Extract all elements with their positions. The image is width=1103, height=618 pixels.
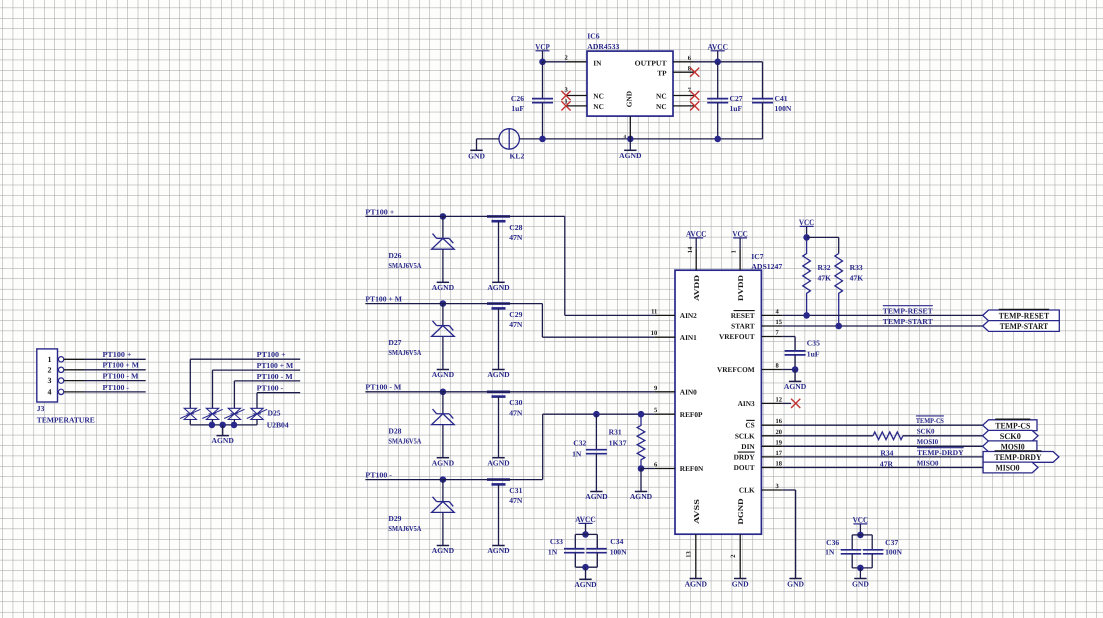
svg-text:18: 18	[776, 461, 783, 468]
svg-text:13: 13	[686, 551, 693, 558]
wire DRDY net	[782, 456, 983, 458]
svg-text:DOUT: DOUT	[734, 463, 755, 472]
svg-text:VCC: VCC	[799, 218, 815, 227]
svg-text:AGND: AGND	[432, 283, 455, 292]
ground AGND below C33/C34	[585, 567, 587, 579]
svg-text:1uF: 1uF	[730, 104, 743, 113]
svg-text:AGND: AGND	[432, 370, 455, 379]
svg-text:10: 10	[651, 330, 658, 337]
svg-text:IN: IN	[593, 58, 602, 67]
svg-text:20: 20	[776, 429, 783, 436]
ground AGND below IC6	[629, 139, 631, 150]
svg-text:4: 4	[48, 387, 52, 396]
svg-text:AGND: AGND	[630, 492, 653, 501]
IC7 pin 2 DGND stub	[739, 534, 741, 578]
junction AVCC	[714, 59, 721, 66]
svg-text:C28: C28	[509, 223, 522, 232]
svg-text:1N: 1N	[548, 547, 558, 556]
svg-text:1uF: 1uF	[511, 104, 524, 113]
svg-text:AVDD: AVDD	[692, 275, 701, 301]
wire PT100 + to AIN2	[365, 215, 564, 217]
wire J3 pin3 net PT100 - M	[84, 380, 146, 382]
svg-text:IC7: IC7	[751, 252, 763, 261]
no-connect X pin 3	[561, 91, 570, 100]
zener diode D26 SMAJ6V5A	[442, 216, 444, 238]
zener diode D28 SMAJ6V5A	[442, 392, 444, 414]
svg-text:VREFOUT: VREFOUT	[719, 332, 755, 341]
capacitor C34 100N	[586, 533, 598, 535]
capacitor C27 1uF	[717, 62, 719, 99]
no-connect X pin 8	[690, 68, 699, 77]
ADC IC7 ADS1247 body	[675, 270, 761, 534]
svg-text:U2B04: U2B04	[267, 421, 289, 430]
resistor R32 47K	[803, 237, 811, 315]
junction PT100 - M diode	[440, 389, 447, 396]
wire REFN to pin 6	[641, 468, 654, 470]
ground AGND below C30	[492, 457, 504, 459]
svg-text:GND: GND	[732, 580, 749, 589]
svg-text:47N: 47N	[509, 408, 523, 417]
IC6 NC pin 7 stub	[673, 95, 695, 97]
junction REFP C32	[593, 411, 600, 418]
svg-text:AIN3: AIN3	[738, 399, 755, 408]
ground AGND below C28	[492, 281, 504, 283]
IC6 NC pin 3 stub	[566, 95, 587, 97]
wire C36/C37 bottom	[852, 567, 872, 569]
svg-text:C33: C33	[550, 537, 563, 546]
svg-text:R32: R32	[818, 263, 831, 272]
ground AGND below R31	[640, 469, 642, 492]
svg-text:PT100 + M: PT100 + M	[365, 295, 402, 304]
svg-text:PT100 -: PT100 -	[103, 383, 130, 392]
svg-text:PT100 - M: PT100 - M	[103, 372, 139, 381]
wire net PT100 - (TVS group)	[257, 392, 300, 394]
svg-text:47N: 47N	[509, 233, 523, 242]
svg-text:D26: D26	[388, 251, 401, 260]
ground GND below C36/C37	[859, 568, 861, 579]
junction PT100 + M diode	[440, 300, 447, 307]
svg-text:PT100 + M: PT100 + M	[103, 361, 140, 370]
svg-text:AVCC: AVCC	[575, 515, 596, 524]
svg-text:OUTPUT: OUTPUT	[635, 58, 667, 67]
svg-text:AGND: AGND	[487, 546, 510, 555]
global label flag TEMP-RESET	[983, 310, 1060, 321]
svg-text:MISO0: MISO0	[996, 463, 1020, 473]
capacitor C30 47N	[487, 390, 510, 393]
wire DIN net	[782, 445, 982, 447]
svg-text:AGND: AGND	[487, 283, 510, 292]
wire PT100 - M to AIN0	[365, 391, 654, 393]
svg-text:SMAJ6V5A: SMAJ6V5A	[388, 261, 421, 270]
svg-text:TEMPERATURE: TEMPERATURE	[37, 416, 95, 425]
svg-text:SMAJ6V5A: SMAJ6V5A	[388, 524, 421, 533]
IC6 NC pin 5 stub	[673, 105, 695, 107]
svg-text:AGND: AGND	[432, 458, 455, 467]
svg-text:TEMP-RESET: TEMP-RESET	[883, 306, 933, 315]
junction rail C27	[714, 136, 721, 143]
svg-text:AGND: AGND	[487, 370, 510, 379]
svg-text:VREFCOM: VREFCOM	[717, 365, 755, 374]
svg-text:TEMP-START: TEMP-START	[883, 317, 933, 326]
svg-text:PT100 +: PT100 +	[365, 207, 394, 216]
svg-text:15: 15	[776, 319, 783, 326]
IC6 pin 8 stub (TP)	[673, 71, 695, 73]
svg-text:SMAJ6V5A: SMAJ6V5A	[388, 436, 421, 445]
svg-text:TP: TP	[657, 69, 667, 78]
svg-text:CLK: CLK	[739, 486, 755, 495]
connector J3 body	[37, 349, 58, 402]
svg-text:TEMP-CS: TEMP-CS	[916, 417, 944, 425]
svg-text:ADR4533: ADR4533	[587, 42, 619, 51]
junction REFP R31	[638, 411, 645, 418]
svg-text:D29: D29	[388, 514, 401, 523]
svg-text:C26: C26	[511, 94, 524, 103]
svg-text:AVSS: AVSS	[692, 499, 701, 524]
supply connector KL2	[499, 129, 519, 149]
TVS diode D25 element 1	[180, 408, 200, 419]
svg-text:J3: J3	[37, 404, 45, 413]
svg-text:1: 1	[731, 250, 738, 253]
svg-text:DRDY: DRDY	[734, 452, 756, 461]
svg-text:C41: C41	[775, 94, 788, 103]
ground AGND below TVS array	[222, 425, 224, 436]
svg-text:NC: NC	[656, 92, 667, 101]
svg-text:47K: 47K	[850, 274, 864, 283]
svg-text:100N: 100N	[610, 547, 627, 556]
svg-text:NC: NC	[593, 102, 604, 111]
IC7 pin 13 AVSS stub	[695, 534, 697, 578]
svg-text:AIN2: AIN2	[680, 311, 697, 320]
zener diode D29 SMAJ6V5A	[442, 480, 444, 502]
TVS diode D25 element 3	[224, 408, 244, 419]
junction VCC C36	[857, 532, 864, 539]
wire J3 pin2 net PT100 + M	[84, 369, 146, 371]
no-connect X pin 7	[690, 91, 699, 100]
ground GND left	[470, 149, 482, 151]
junction VCC R32	[803, 234, 810, 241]
svg-text:AGND: AGND	[212, 436, 235, 445]
wire J3 pin4 net PT100 -	[84, 391, 146, 393]
svg-text:SCK0: SCK0	[917, 428, 935, 436]
ground AGND below D26	[437, 281, 449, 283]
TVS diode D25 element 2	[202, 408, 222, 419]
svg-text:D25: D25	[268, 408, 281, 417]
svg-text:11: 11	[651, 308, 657, 315]
svg-text:TEMP-DRDY: TEMP-DRDY	[995, 452, 1043, 462]
ground AGND below D27	[437, 369, 449, 371]
svg-text:D27: D27	[388, 338, 401, 347]
svg-text:PT100 -: PT100 -	[365, 471, 392, 480]
svg-text:TEMP-START: TEMP-START	[1000, 321, 1049, 331]
TVS diode D25 element 4	[247, 408, 267, 419]
wire net PT100 + (TVS group)	[190, 358, 300, 360]
svg-text:1: 1	[48, 355, 52, 364]
svg-text:AGND: AGND	[487, 458, 510, 467]
svg-text:C27: C27	[730, 94, 743, 103]
svg-text:VCC: VCC	[853, 515, 869, 524]
wire DOUT net	[782, 467, 983, 469]
junction GND C36	[857, 565, 864, 572]
svg-text:SCK0: SCK0	[1000, 431, 1021, 441]
no-connect X AIN3	[791, 399, 800, 408]
svg-text:AGND: AGND	[585, 492, 608, 501]
junction REFN R31	[638, 465, 645, 472]
wire J3 pin1 net PT100 +	[84, 358, 146, 360]
svg-text:R33: R33	[850, 263, 863, 272]
wire net PT100 + M (TVS group)	[213, 369, 301, 371]
svg-text:AIN0: AIN0	[680, 387, 697, 396]
wire PT100 + M to AIN1	[365, 303, 542, 305]
svg-text:AVCC: AVCC	[686, 229, 707, 238]
capacitor C31 47N	[487, 478, 510, 481]
wire net PT100 - M (TVS group)	[234, 380, 300, 382]
ground AGND below C31	[492, 545, 504, 547]
svg-text:SMAJ6V5A: SMAJ6V5A	[388, 348, 421, 357]
wire VREFOUT to C35	[782, 336, 795, 338]
wire START net	[782, 325, 983, 327]
svg-text:2: 2	[48, 365, 52, 374]
svg-text:DIN: DIN	[741, 442, 755, 451]
svg-text:MOSI0: MOSI0	[917, 438, 939, 446]
svg-text:CS: CS	[745, 421, 754, 430]
svg-text:MISO0: MISO0	[917, 459, 939, 467]
wire CS net	[782, 424, 983, 426]
svg-text:47N: 47N	[509, 496, 523, 505]
svg-text:REF0N: REF0N	[680, 464, 704, 473]
svg-text:14: 14	[687, 246, 694, 253]
svg-text:D28: D28	[388, 426, 401, 435]
svg-text:GND: GND	[625, 91, 634, 107]
svg-text:TEMP-RESET: TEMP-RESET	[999, 311, 1050, 321]
no-connect X pin 5	[690, 101, 699, 110]
capacitor C28 47N	[487, 215, 510, 218]
svg-text:SCLK: SCLK	[735, 431, 755, 440]
junction rail AGND	[627, 136, 634, 143]
svg-text:AGND: AGND	[784, 382, 807, 391]
svg-text:1uF: 1uF	[807, 349, 820, 358]
IC6 pin 6 stub (OUTPUT)	[673, 61, 694, 63]
svg-text:DGND: DGND	[736, 499, 745, 525]
svg-text:C31: C31	[509, 486, 522, 495]
wire KL2 to GND	[477, 138, 499, 140]
global label flag TEMP-START	[983, 321, 1060, 332]
wire TVS common rail	[190, 424, 257, 426]
svg-text:19: 19	[776, 439, 783, 446]
capacitor C41 100N	[762, 62, 764, 99]
svg-text:PT100 - M: PT100 - M	[365, 383, 401, 392]
svg-text:IC6: IC6	[587, 32, 599, 41]
IC6 pin 2 stub (IN)	[566, 61, 587, 63]
svg-text:AVCC: AVCC	[707, 42, 728, 51]
svg-text:C30: C30	[509, 398, 522, 407]
svg-text:C37: C37	[885, 538, 898, 547]
ground AGND below D28	[437, 457, 449, 459]
svg-text:C36: C36	[826, 538, 839, 547]
voltage reference IC6 ADR4533 body	[587, 51, 673, 116]
junction rail C26	[539, 136, 546, 143]
svg-text:C32: C32	[573, 439, 586, 448]
resistor R33 47K	[835, 254, 843, 327]
svg-text:GND: GND	[468, 152, 485, 161]
svg-text:NC: NC	[656, 102, 667, 111]
svg-text:NC: NC	[593, 92, 604, 101]
svg-text:47K: 47K	[818, 274, 832, 283]
svg-text:R34: R34	[880, 449, 893, 458]
svg-text:START: START	[731, 322, 755, 331]
svg-text:3: 3	[48, 376, 52, 385]
wire SCLK net with series resistor	[782, 435, 873, 437]
svg-text:RESET: RESET	[731, 311, 755, 320]
IC7 pin 14 AVDD stub	[695, 249, 697, 270]
svg-text:12: 12	[776, 396, 783, 403]
global label flag TEMP-CS	[983, 420, 1037, 431]
ground AGND below C32	[590, 491, 602, 493]
svg-text:VCP: VCP	[535, 42, 550, 51]
svg-text:1K37: 1K37	[609, 439, 627, 448]
junction PT100 + diode	[440, 213, 447, 220]
IC6 GND pin stub	[629, 116, 631, 139]
svg-text:TEMP-DRDY: TEMP-DRDY	[917, 449, 965, 457]
capacitor C26 1uF	[542, 62, 544, 99]
svg-text:KL2: KL2	[510, 152, 525, 161]
svg-text:PT100 +: PT100 +	[103, 350, 132, 359]
wire VREFCOM net	[782, 369, 795, 371]
svg-text:PT100 + M: PT100 + M	[257, 361, 294, 370]
svg-text:DVDD: DVDD	[736, 275, 745, 301]
svg-text:R31: R31	[609, 428, 622, 437]
svg-text:2: 2	[730, 555, 737, 558]
zener diode D27 SMAJ6V5A	[442, 304, 444, 326]
svg-text:C34: C34	[610, 537, 623, 546]
IC6 NC pin 1 stub	[566, 105, 587, 107]
junction PT100 - diode	[440, 476, 447, 483]
wire VCC to R33	[807, 236, 839, 238]
junction VCP	[539, 59, 546, 66]
junction TVS 3	[231, 422, 238, 429]
global label flag TEMP-DRDY	[983, 452, 1059, 463]
capacitor C36 1N	[852, 534, 860, 536]
svg-text:TEMP-CS: TEMP-CS	[995, 420, 1030, 430]
capacitor C33 1N	[575, 533, 585, 535]
svg-text:C29: C29	[509, 310, 522, 319]
junction TVS 2	[209, 422, 216, 429]
ground GND below CLK	[789, 578, 801, 580]
svg-text:AGND: AGND	[574, 580, 597, 589]
junction TVS agnd	[219, 422, 226, 429]
svg-text:AGND: AGND	[432, 546, 455, 555]
svg-text:16: 16	[776, 418, 783, 425]
svg-text:AGND: AGND	[685, 580, 708, 589]
ground AGND below C35	[794, 370, 796, 382]
svg-text:2: 2	[565, 54, 568, 61]
wire PT100 - to REFP0	[365, 479, 542, 481]
svg-text:47N: 47N	[509, 320, 523, 329]
wire RESET net	[782, 314, 983, 316]
svg-text:PT100 -: PT100 -	[257, 384, 284, 393]
capacitor C37 100N	[860, 534, 872, 536]
junction RESET R32	[803, 312, 810, 319]
svg-text:100N: 100N	[885, 548, 902, 557]
capacitor C35 1uF	[785, 351, 806, 355]
global label flag SCK0	[983, 430, 1038, 441]
svg-text:1N: 1N	[825, 548, 835, 557]
svg-text:AIN1: AIN1	[680, 333, 697, 342]
capacitor C32 1N	[595, 414, 597, 450]
junction START R33	[835, 323, 842, 330]
svg-text:17: 17	[776, 450, 783, 457]
wire CLK to GND	[782, 489, 795, 491]
ground AGND below C29	[492, 369, 504, 371]
svg-text:GND: GND	[787, 580, 804, 589]
junction AGND C33	[582, 564, 589, 571]
ground rail wire	[519, 138, 762, 140]
wire C33/C34 bottom	[575, 566, 597, 568]
svg-text:C35: C35	[807, 338, 820, 347]
junction VREFCOM	[792, 366, 799, 373]
svg-text:GND: GND	[852, 580, 869, 589]
wire VCP to IC6 IN	[543, 61, 567, 63]
resistor R31 1K37	[637, 414, 645, 468]
svg-text:100N: 100N	[775, 104, 792, 113]
IC7 pin 1 DVDD stub	[739, 249, 741, 270]
ground GND below DGND	[734, 578, 746, 580]
svg-text:VCC: VCC	[732, 229, 748, 238]
svg-text:ADS1247: ADS1247	[751, 262, 782, 271]
ground AGND below AVSS	[690, 578, 702, 580]
svg-text:1N: 1N	[572, 450, 582, 459]
svg-text:REF0P: REF0P	[680, 410, 703, 419]
global label flag MISO0	[983, 462, 1038, 473]
no-connect X pin 1	[561, 101, 570, 110]
svg-text:PT100 +: PT100 +	[257, 350, 286, 359]
svg-text:PT100 - M: PT100 - M	[257, 372, 293, 381]
capacitor C29 47N	[487, 302, 510, 305]
svg-text:MOSI0: MOSI0	[1001, 441, 1025, 451]
svg-text:AGND: AGND	[619, 151, 642, 160]
global label flag MOSI0	[983, 441, 1037, 452]
ground AGND below D29	[437, 545, 449, 547]
wire OUTPUT to AVCC	[694, 61, 763, 63]
junction AVCC C33	[582, 531, 589, 538]
